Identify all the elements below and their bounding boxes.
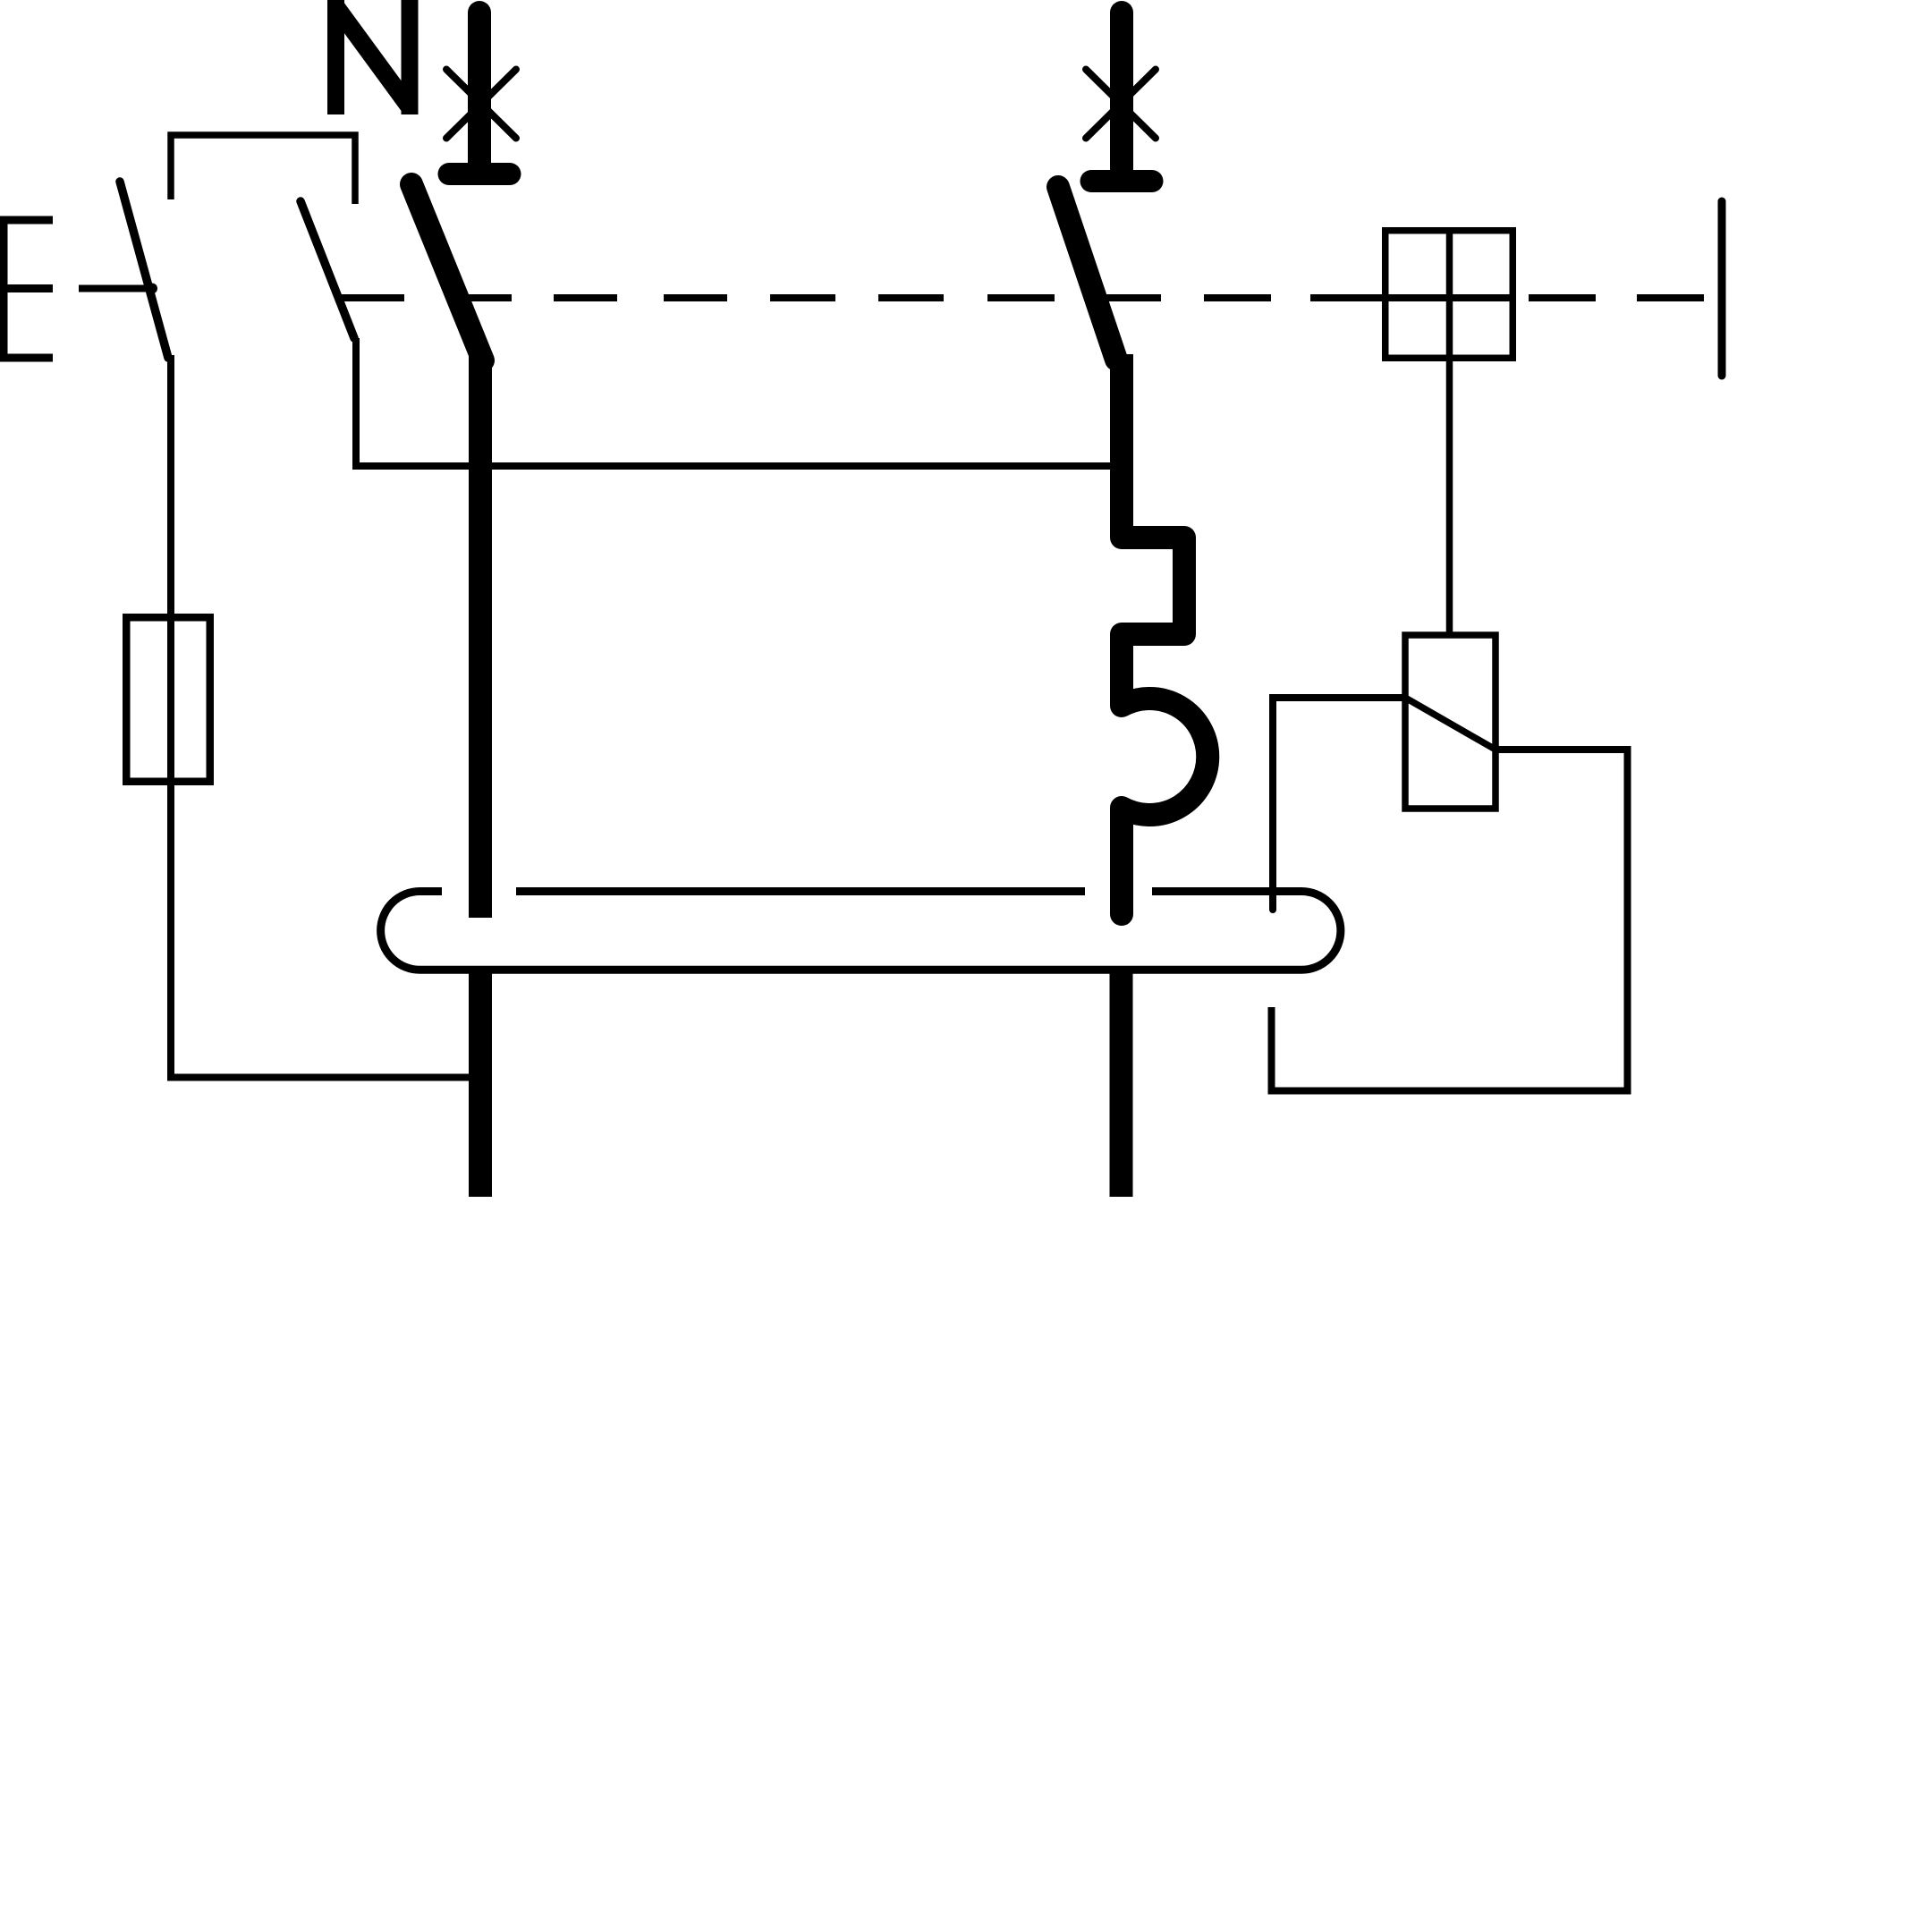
handle bar at right end of coupling line xyxy=(1718,201,1726,376)
pole 2 terminal X symbol xyxy=(1086,70,1156,139)
trip relay diagonal xyxy=(1405,698,1496,750)
wire from relay left terminal into CT ring xyxy=(1273,698,1405,910)
label N (neutral pole) xyxy=(336,0,411,114)
pole 2 terminal bar xyxy=(1091,170,1152,192)
pole 1 main contact blade (thick) xyxy=(411,184,483,360)
wire from test contact down through resistor to N pole conductor xyxy=(171,355,470,1078)
pole 1 conductor lower segment xyxy=(469,973,492,1197)
latch box centre line + wire down to trip relay xyxy=(1446,227,1453,635)
pole 1 conductor upper segment xyxy=(469,356,492,918)
label E (test button) xyxy=(0,216,53,362)
test contact blade (E switch) xyxy=(120,182,168,358)
current transformer ring top middle segment xyxy=(516,887,1085,895)
N-pole auxiliary contact blade xyxy=(301,201,354,338)
wire loop from relay right terminal around to below CT ring xyxy=(1272,750,1628,1091)
rounded end of trip element inside CT xyxy=(1110,912,1133,914)
dashed link E to test contact xyxy=(79,285,153,292)
wire from aux contact to phase pole trip element xyxy=(356,338,1111,466)
mechanism latch box (square with cross) xyxy=(1385,231,1513,359)
mechanical coupling dashed line xyxy=(340,294,1704,301)
bracket wire joining tops of both thin contacts xyxy=(171,135,355,204)
pole 1 terminal bar xyxy=(449,163,510,185)
current transformer ring (stadium) xyxy=(381,892,1341,970)
pole 2 terminal lead (L) xyxy=(1110,13,1133,170)
resistor R (test resistor) xyxy=(126,617,210,782)
pole 2 conductor lower segment xyxy=(1110,973,1133,1197)
trip relay box xyxy=(1405,635,1496,809)
junction dot on test contact blade xyxy=(147,284,157,294)
pole 1 terminal lead (N) xyxy=(468,13,491,163)
pole 2 thermal-magnetic trip element xyxy=(1122,354,1207,914)
pole 2 main contact blade (thick) xyxy=(1058,187,1116,360)
pole 1 terminal X symbol xyxy=(446,70,516,139)
